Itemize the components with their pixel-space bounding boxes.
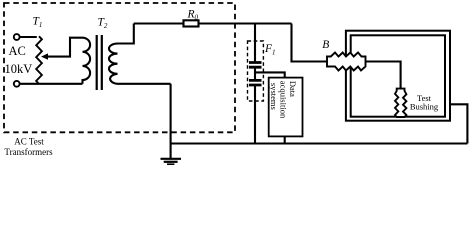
test chamber inner wall [351, 35, 445, 116]
wire bottom bus T1-T2 primary [20, 83, 83, 85]
svg-text:acquisition: acquisition [278, 81, 288, 119]
transformer T1 winding zigzag [36, 36, 42, 84]
svg-text:AC: AC [9, 44, 26, 58]
svg-text:B: B [322, 39, 329, 51]
svg-text:Data: Data [288, 81, 298, 97]
ground bus wire [171, 142, 468, 144]
wire B to test bushing [366, 62, 401, 89]
svg-text:10kV: 10kV [5, 62, 33, 76]
wire tap to data acquisition [255, 72, 285, 77]
dashed enclosure AC Test Transformers [4, 3, 235, 132]
data acquisition box [269, 78, 303, 137]
svg-text:systems: systems [269, 83, 279, 110]
transformer T2 secondary winding [109, 44, 118, 84]
terminal node top [14, 34, 20, 40]
svg-text:AC Test: AC Test [14, 136, 44, 146]
terminal node bottom [14, 81, 20, 87]
wire secondary bottom lead [118, 83, 171, 85]
svg-text:Transformers: Transformers [4, 147, 53, 157]
transformer T2 primary winding [83, 38, 91, 84]
wire F1 divider chain [254, 24, 256, 144]
wire drop to bushing B [292, 24, 328, 62]
ground [161, 158, 182, 160]
wire chamber ground stub [450, 104, 467, 143]
svg-text:Bushing: Bushing [410, 102, 439, 112]
wire DAQ to ground bus [284, 136, 286, 143]
T2 core [97, 35, 102, 90]
wall bushing B [327, 53, 366, 71]
wiper arrow of T1 [45, 38, 83, 57]
wire top terminal lead [20, 36, 37, 38]
capacitor F1 lower plates [249, 80, 262, 85]
resistor R0 [184, 20, 199, 26]
capacitor F1 upper plates [249, 63, 262, 68]
dashed box around F1 [248, 41, 264, 101]
test chamber outer wall [346, 31, 450, 121]
test bushing [395, 89, 406, 117]
wire secondary top lead [118, 24, 134, 44]
wire ground drop [170, 84, 172, 158]
wire HV top line [134, 22, 292, 24]
